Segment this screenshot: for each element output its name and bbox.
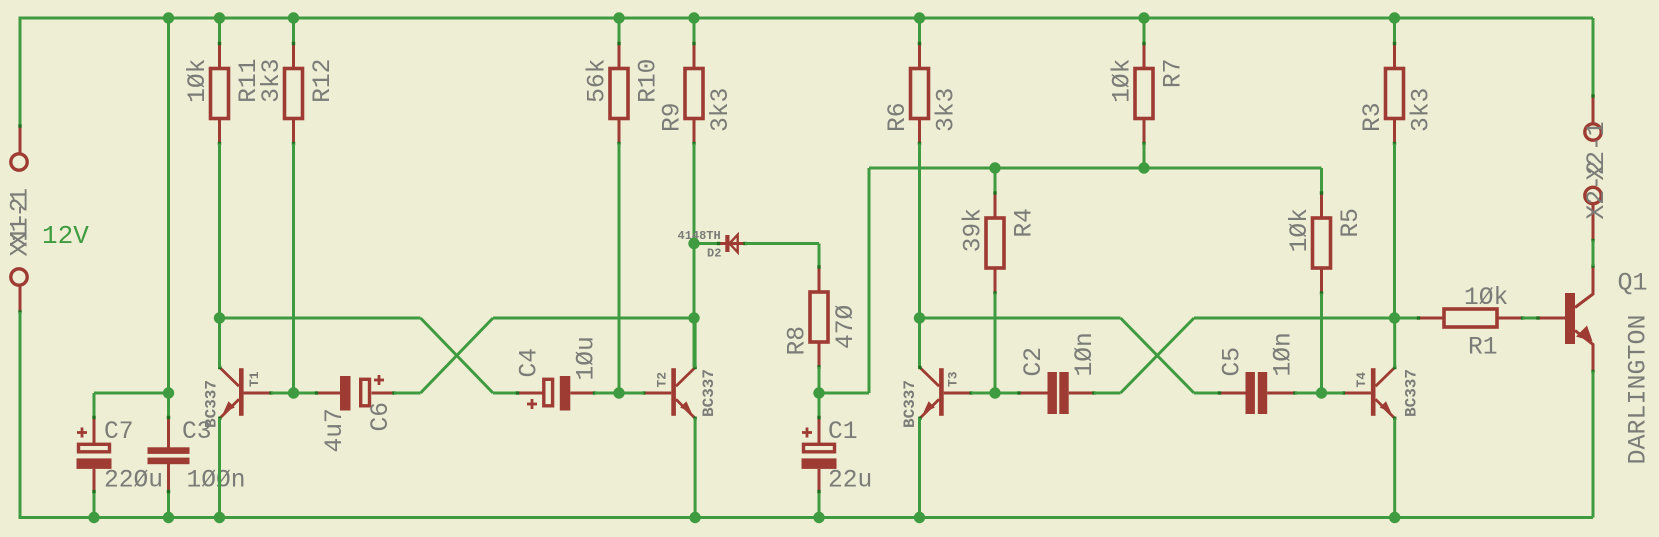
wire T4 emitter net [1393, 418, 1396, 517]
junction R4 top node [989, 162, 1000, 173]
wire C5 to T4 base dot [1295, 392, 1322, 395]
junction top rail / R12 [288, 12, 299, 23]
resistor R11 [211, 42, 229, 145]
svg-text:C1: C1 [828, 419, 858, 446]
svg-text:T2: T2 [655, 372, 670, 388]
wire T3 base to C2 [995, 392, 1019, 395]
wire D2 cathode net [745, 242, 819, 245]
wire X2-2 to Q1 collector [1592, 241, 1595, 267]
capacitor C2 name label [1021, 347, 1048, 377]
svg-text:DARLINGTON: DARLINGTON [1624, 314, 1653, 464]
resistor R3 value label [1409, 88, 1436, 132]
svg-text:47Ø: 47Ø [833, 304, 860, 349]
resistor R5 name label [1338, 208, 1365, 238]
wire R12 to T1 base node [292, 144, 295, 394]
transistor T1 name label [247, 371, 262, 387]
junction T4 base node [1316, 387, 1327, 398]
svg-text:X1-1: X1-1 [8, 188, 35, 247]
svg-text:R6: R6 [885, 102, 912, 132]
wire cross diagonal T3C to C5 [1121, 318, 1195, 393]
wire T4 collector net [1393, 318, 1396, 368]
junction bottom rail / T3 emitter [914, 512, 925, 523]
svg-text:R3: R3 [1360, 102, 1387, 132]
wire T3 base net [971, 392, 995, 395]
wire T2 base net [619, 392, 644, 395]
resistor R12 name label [310, 59, 337, 103]
svg-text:4148TH: 4148TH [678, 229, 721, 243]
resistor R7 name label [1161, 59, 1188, 89]
connector pin X2-1 [1585, 94, 1601, 140]
capacitor C6 [315, 375, 396, 411]
svg-text:C5: C5 [1220, 347, 1247, 377]
svg-text:T3: T3 [946, 371, 961, 387]
wire R9 to T2 collector node [693, 144, 696, 368]
transistor Q1 value label DARLINGTON [1624, 314, 1653, 464]
diode D2 name label [707, 247, 721, 261]
svg-text:1Øk: 1Øk [1110, 59, 1137, 103]
connector X1 pin labels [8, 188, 35, 257]
wire C7 top lead net [93, 393, 96, 418]
wire T3 collector horizontal [920, 317, 1121, 320]
wire C1 top lead net [818, 393, 821, 418]
resistor R4 name label [1012, 208, 1039, 238]
junction top rail / R10 [613, 12, 624, 23]
capacitor C2 [1017, 372, 1095, 414]
wire R12 top net [292, 18, 295, 44]
wire C4 to T2 base dot [595, 392, 620, 395]
junction C7/C3 node [163, 387, 174, 398]
wire R4 to T3 base node [994, 294, 997, 394]
junction top rail / R7 [1138, 12, 1149, 23]
svg-text:Q1: Q1 [1618, 269, 1648, 298]
resistor R5 [1313, 191, 1331, 294]
wire T4 collector node to R1 [1395, 317, 1419, 320]
svg-text:C2: C2 [1021, 347, 1048, 377]
wire C3 top lead net [167, 393, 170, 418]
resistor R8 name label [785, 326, 812, 356]
capacitor C2 value label [1072, 332, 1099, 376]
svg-text:X2-2: X2-2 [1584, 160, 1611, 219]
svg-text:3k3: 3k3 [1409, 88, 1436, 132]
wire left vertical from rail to X1-2 [19, 18, 22, 126]
svg-text:T4: T4 [1354, 372, 1369, 388]
junction R8/C1 node [813, 387, 824, 398]
junction top rail / x168 [163, 12, 174, 23]
svg-text:D2: D2 [707, 247, 721, 261]
svg-text:R12: R12 [310, 59, 337, 103]
wire T1 collector net [218, 318, 221, 368]
svg-text:1Øn: 1Øn [1271, 332, 1298, 376]
capacitor C7 [77, 416, 112, 493]
capacitor C4 name label [517, 348, 544, 378]
connector pin X1-2 [11, 124, 27, 170]
wire R6 top net [918, 18, 921, 44]
wire R10 top net [618, 18, 621, 44]
wire R11 top net [218, 18, 221, 44]
wire R9 top net [693, 18, 696, 44]
resistor R4 [986, 191, 1004, 294]
wire T4 base net [1322, 392, 1344, 395]
wire left vertical X1-1 to bottom rail [19, 312, 22, 518]
wire R6 to T3 collector node [918, 144, 921, 368]
wire C1 bottom lead net [818, 492, 821, 518]
resistor R12 value label [259, 59, 286, 103]
wire R7 bottom to bus [1143, 144, 1146, 169]
wire R7 top net [1143, 18, 1146, 44]
junction top rail / R3 [1389, 12, 1400, 23]
capacitor C1 value label [828, 468, 872, 495]
resistor R3 [1386, 42, 1404, 145]
wire R10 to T2 base node [618, 144, 621, 394]
wire bottom ground rail [19, 516, 1594, 519]
wire C2 right net [1094, 392, 1121, 395]
junction T2 collector node [688, 312, 699, 323]
resistor R3 name label [1360, 102, 1387, 132]
svg-text:3k3: 3k3 [934, 88, 961, 132]
wire T2 collector net [694, 318, 697, 368]
capacitor C6 value label [322, 408, 349, 452]
resistor R5 value label [1287, 208, 1314, 252]
junction T3 base node [989, 387, 1000, 398]
wire bus vertical x=869 [868, 168, 871, 393]
junction bottom rail / T1 emitter [214, 512, 225, 523]
svg-text:1Øk: 1Øk [1287, 208, 1314, 252]
svg-text:R8: R8 [785, 326, 812, 356]
wire C4 left net [493, 392, 518, 395]
capacitor C5 [1218, 372, 1297, 414]
junction T4 collector node [1389, 312, 1400, 323]
svg-text:3k3: 3k3 [259, 59, 286, 103]
resistor R4 value label [961, 208, 988, 252]
svg-text:R10: R10 [636, 59, 663, 103]
svg-text:4u7: 4u7 [322, 408, 349, 452]
capacitor C1 [802, 416, 837, 493]
svg-text:BC337: BC337 [901, 380, 919, 428]
wire C5 left net [1194, 392, 1220, 395]
capacitor C4 value label [574, 336, 601, 380]
wire D2 anode net [694, 242, 719, 245]
svg-text:1ØØn: 1ØØn [187, 468, 246, 495]
wire cross diagonal C2 to T4C [1121, 318, 1195, 393]
resistor R8 [810, 265, 828, 368]
resistor R1Ø value label [585, 59, 612, 103]
wire T3 emitter net [918, 418, 921, 517]
resistor R8 value label [833, 304, 860, 349]
net label 12V [42, 221, 89, 251]
connector pin X2-2 [1585, 187, 1601, 242]
resistor R9 value label [708, 88, 735, 132]
resistor R9 [685, 42, 703, 145]
resistor R1Ø name label [636, 59, 663, 103]
svg-text:BC337: BC337 [700, 369, 718, 417]
svg-text:1Øk: 1Øk [185, 59, 212, 103]
transistor T3 name label [946, 371, 961, 387]
transistor T3 value label BC337 [901, 380, 919, 428]
wire T2 collector horizontal [493, 317, 694, 320]
wire R8 node to bus corner [819, 392, 869, 395]
svg-text:BC337: BC337 [203, 380, 221, 428]
svg-text:BC337: BC337 [1403, 369, 1421, 417]
diode D2 [717, 235, 747, 253]
transistor T4 value label BC337 [1403, 369, 1421, 417]
junction top rail / R11 [214, 12, 225, 23]
capacitor C4 [516, 376, 596, 411]
transistor T2 value label BC337 [700, 369, 718, 417]
capacitor C5 value label [1271, 332, 1298, 376]
resistor R11 value label [185, 59, 212, 103]
wire C7 bottom lead net [93, 492, 96, 518]
resistor R7 [1135, 42, 1153, 145]
connector pin X1-1 [11, 269, 27, 314]
junction top rail / R9 [688, 12, 699, 23]
svg-text:R7: R7 [1161, 59, 1188, 89]
wire R1 to Q1 base [1523, 317, 1539, 320]
transistor Q1 name label [1618, 269, 1648, 298]
svg-text:12V: 12V [42, 221, 89, 251]
wire right vertical rail to X2-1 [1592, 18, 1595, 96]
wire supply branch x=168 [167, 18, 170, 393]
wire T4 collector horizontal [1194, 317, 1395, 320]
svg-text:R1: R1 [1468, 335, 1498, 362]
capacitor C7 value label [104, 468, 163, 495]
svg-text:3k3: 3k3 [708, 88, 735, 132]
wire cross diagonal C6 to T2C [421, 318, 494, 393]
junction bottom rail / C1 [813, 512, 824, 523]
connector X2 pin labels [1584, 121, 1611, 219]
wire T1 base net [271, 392, 293, 395]
transistor Q1 [1536, 264, 1594, 373]
svg-text:1Øu: 1Øu [574, 336, 601, 380]
wire T2 emitter net [694, 418, 697, 517]
resistor R1Ø [610, 42, 628, 145]
wire stage2 supply bus [869, 167, 1322, 170]
svg-text:C7: C7 [104, 419, 134, 446]
transistor T2 name label [655, 372, 670, 388]
junction bottom rail / T2 emitter [689, 512, 700, 523]
wire R8 bottom net [818, 367, 821, 393]
wire C6 right net [394, 392, 421, 395]
resistor R1 [1417, 309, 1524, 327]
wire C7 to C3 link [94, 392, 169, 395]
resistor R1 value label [1464, 285, 1508, 312]
transistor T1 value label BC337 [203, 380, 221, 428]
svg-text:R9: R9 [660, 102, 687, 132]
svg-text:39k: 39k [961, 208, 988, 252]
resistor R1 name label [1468, 335, 1498, 362]
capacitor C3 name label [182, 419, 212, 446]
transistor T1 [218, 366, 273, 420]
junction T2 base node [613, 387, 624, 398]
junction bottom rail / C7 [88, 512, 99, 523]
svg-text:R5: R5 [1338, 208, 1365, 238]
wire cross diagonal T1C to C4 [421, 318, 494, 393]
wire R5 top net [1320, 168, 1323, 193]
capacitor C6 name label [368, 402, 395, 432]
resistor R6 [911, 42, 929, 145]
wire R4 top net [994, 168, 997, 193]
capacitor C3 [148, 416, 190, 493]
junction T1 base node [288, 387, 299, 398]
svg-text:1Øk: 1Øk [1464, 285, 1508, 312]
capacitor C3 value label [187, 468, 246, 495]
junction R7/bus node [1138, 162, 1149, 173]
svg-text:1Øn: 1Øn [1072, 332, 1099, 376]
resistor R11 name label [236, 59, 263, 103]
wire R11 to T1 collector node [218, 144, 221, 319]
transistor T3 [918, 366, 973, 420]
diode D2 value label [678, 229, 721, 243]
capacitor C7 name label [104, 419, 134, 446]
transistor T2 [642, 366, 697, 420]
svg-text:R4: R4 [1012, 208, 1039, 238]
junction bottom rail / T4 emitter [1389, 512, 1400, 523]
svg-text:22u: 22u [828, 468, 872, 495]
transistor T4 [1342, 366, 1397, 420]
svg-text:C6: C6 [368, 402, 395, 432]
transistor T4 name label [1354, 372, 1369, 388]
resistor R6 name label [885, 102, 912, 132]
junction top rail / R6 [914, 12, 925, 23]
svg-text:T1: T1 [247, 371, 262, 387]
svg-text:C4: C4 [517, 348, 544, 378]
junction T3 collector node [914, 312, 925, 323]
resistor R6 value label [934, 88, 961, 132]
wire Q1 emitter net [1592, 372, 1595, 518]
wire T1 base to C6 [298, 392, 317, 395]
wire T1 collector horizontal [220, 317, 421, 320]
wire C3 bottom lead net [167, 492, 170, 518]
resistor R12 [285, 42, 303, 145]
wire top power rail 12V [19, 17, 1594, 20]
capacitor C1 name label [828, 419, 858, 446]
wire R3 to T4 collector node [1393, 144, 1396, 319]
wire T1 emitter net [218, 418, 221, 517]
resistor R9 name label [660, 102, 687, 132]
wire R3 top net [1393, 18, 1396, 44]
wire R5 to T4 base node [1320, 294, 1323, 394]
resistor R7 value label [1110, 59, 1137, 103]
wire D2 net corner down [818, 244, 821, 267]
svg-text:56k: 56k [585, 59, 612, 103]
junction bottom rail / C3 [163, 512, 174, 523]
capacitor C5 name label [1220, 347, 1247, 377]
svg-text:22Øu: 22Øu [104, 468, 163, 495]
junction D2 tap node [688, 238, 699, 249]
junction T1 collector node [214, 312, 225, 323]
